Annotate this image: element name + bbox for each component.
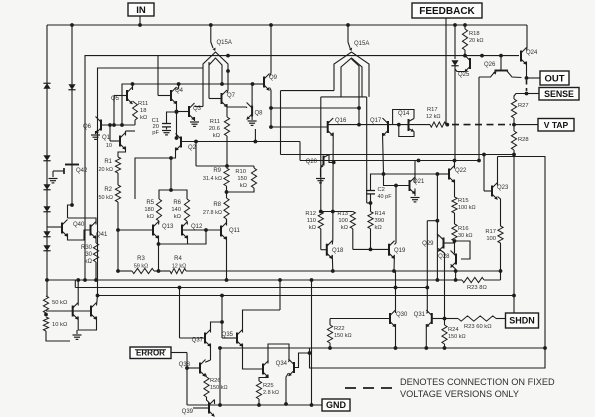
wire R10 bottom [227,188,255,192]
terminal box IN [128,3,154,16]
wire C2 bottom node [369,194,373,212]
wire bus y287 [75,280,427,289]
svg-text:Q30: Q30 [396,312,408,318]
wire R25 bottom [257,399,261,407]
ground for Q6 [91,131,100,139]
wire C2 top [371,172,440,190]
wire crown2 bottom rail [321,96,367,98]
diode D3 [43,184,50,190]
diode D4 [43,206,50,212]
svg-text:Q24: Q24 [526,50,538,56]
wire Q39 base [193,407,209,409]
svg-text:R9: R9 [213,168,221,174]
transistor Q19 [389,241,406,259]
svg-text:Q12: Q12 [191,224,203,230]
svg-text:40 pF: 40 pF [378,194,393,200]
wire IN lead [139,16,141,25]
wire y348 bus [218,346,547,350]
wire y160 bus [300,159,479,163]
svg-text:R28: R28 [518,137,529,143]
wire Q7 collector [227,90,228,93]
svg-text:DENOTES CONNECTION ON FIXED: DENOTES CONNECTION ON FIXED [400,377,555,387]
wire Q44 collector [97,296,98,306]
transistor Q18 [327,241,344,259]
node R3-R4 [154,269,170,273]
wire Q8 riser [251,84,253,106]
svg-text:Q31: Q31 [414,312,426,318]
terminal box GND [322,399,350,411]
wire Q40 base [47,226,62,228]
resistor R9 [203,168,229,186]
wire Q4 emitter chain [176,101,178,138]
svg-text:18: 18 [140,108,146,114]
svg-text:R11: R11 [210,119,220,125]
wire inner loop [98,68,204,296]
transistor Q3 [189,103,202,120]
wire Q29 collector tie [427,221,438,238]
transistor Q34 [276,359,294,376]
svg-text:Q13: Q13 [162,224,174,230]
resistor R2 [98,185,120,202]
svg-text:kΩ: kΩ [240,183,248,189]
transistor Q30 [390,310,408,327]
svg-text:R14: R14 [375,211,386,217]
transistor Q31 [414,310,432,327]
svg-text:R8: R8 [213,202,221,208]
wire Q30 emitter [394,324,398,350]
svg-text:180: 180 [144,207,154,213]
wire tap to pair [46,310,73,312]
wire Q4 base [158,56,171,96]
svg-text:pF: pF [152,130,159,136]
svg-text:Q8: Q8 [255,111,264,117]
resistor R14 [368,211,386,231]
transistor Q29 [422,235,443,252]
wire Q29 emitter drop [438,249,445,319]
svg-text:Q11: Q11 [229,228,241,234]
svg-text:2.8 kΩ: 2.8 kΩ [263,390,279,396]
wire Q5 collector [132,84,134,90]
wire Q13 collector [158,221,161,225]
wire Q38 emitter [205,374,206,378]
wire crown2 left column [320,97,322,212]
svg-text:SHDN: SHDN [509,316,535,326]
svg-text:R11: R11 [138,101,148,107]
wire R30 to bus [94,262,98,282]
wire Q39 collector [207,397,215,404]
wire Q37 emitter [205,344,210,363]
transistor Q44 [91,303,97,320]
wire q34 node riser [309,348,311,353]
wire R13R14 to Q19 base [353,229,389,252]
resistor R23a 8ohm [456,271,501,291]
resistor R28 [511,131,528,150]
svg-text:SENSE: SENSE [544,89,574,99]
transistor Q15A right [334,25,369,97]
wire bus y295 [96,294,516,298]
wire Q23 collector [497,157,499,186]
svg-text:R17: R17 [485,229,496,235]
resistor R1 [98,157,120,173]
node Q40 top [70,203,74,207]
svg-text:R10: R10 [235,169,246,175]
transistor Q4 [171,87,184,104]
transistor Q24 [521,48,538,65]
wire gnd bus y280 [45,278,457,282]
svg-text:Q42: Q42 [76,168,88,174]
ground for Q3 [190,117,199,126]
wire R24 ties [443,319,447,350]
wire Q29 riser drop [425,221,429,313]
svg-text:27.8 kΩ: 27.8 kΩ [203,210,222,216]
resistor R22 [327,325,351,343]
svg-text:20.6: 20.6 [209,126,220,132]
wire R1-R2 [117,173,119,185]
wire R15-R16 [454,213,456,224]
capacitor C1 [152,118,171,136]
wire Q34 collector [288,361,291,362]
svg-text:Q14: Q14 [398,111,410,117]
wire x311 riser [311,280,313,405]
wire pair bases [73,310,91,312]
svg-text:R5: R5 [146,200,154,206]
wire Q5 base [114,96,127,126]
terminal box SENSE [539,88,579,101]
wire R17v bottom [500,243,502,271]
svg-text:R30: R30 [81,245,93,251]
transistor Q6 [83,117,101,134]
transistor Q16 [328,118,347,136]
wire Q18 emitter [331,255,334,271]
wire y271 bus [186,269,502,273]
wire emitter bus [328,124,388,126]
transistor Q22 [449,166,467,183]
svg-text:20 kΩ: 20 kΩ [469,38,484,44]
transistor Q8 [247,103,264,120]
wire Q37 base [180,288,206,339]
resistor 50k [43,296,68,313]
wire Q12-Q11 bases [182,228,221,232]
svg-text:kΩ: kΩ [174,214,182,220]
resistor R17h 12k [426,107,446,127]
terminal box OUT [540,71,569,85]
terminal box ERROR [130,347,171,359]
wire Q34 emitter [284,373,288,406]
wire Q8 collector link [227,107,247,108]
node top rail taps [70,23,467,27]
svg-text:390: 390 [375,218,385,224]
wire Q40 collector feed [68,205,73,218]
transistor Q7 [222,90,236,107]
transistor Q40 [62,220,85,237]
wire sense to R27 [514,94,527,100]
resistor R17v 100 [485,226,503,243]
svg-text:59 kΩ: 59 kΩ [134,264,149,270]
legend text [400,377,555,399]
svg-text:Q7: Q7 [227,93,236,99]
diode D1 [43,83,50,89]
wire Q7 emitter [226,104,228,117]
wire R18 hang [464,25,466,29]
transistor Q9 [264,74,278,91]
svg-text:100 kΩ: 100 kΩ [458,205,476,211]
wire Q29 base tie [444,242,455,244]
wire Q42 source down [71,177,73,205]
transistor Q17 [370,118,388,136]
svg-text:GND: GND [326,400,347,410]
resistor R5 [144,199,161,221]
svg-text:R15: R15 [458,198,469,204]
wire y108 link [271,106,361,110]
wire Q33 collector [268,344,289,364]
svg-text:kΩ: kΩ [341,225,349,231]
wire Q21 emitter [414,189,416,197]
capacitor C2 [366,187,392,200]
terminal box FEEDBACK [412,3,482,18]
wire Q1 collector [126,131,136,136]
svg-text:R1: R1 [104,159,112,165]
svg-text:Q15A: Q15A [354,41,369,47]
wire dashed fixed link [452,124,511,126]
resistor R26 [204,377,228,397]
wire dashed out-sense [526,80,528,91]
wire Q34 base [294,351,311,367]
wire R2 down [117,202,119,271]
transistor Q20 [306,155,336,169]
svg-text:R27: R27 [518,103,529,109]
wire R28 tail to SHDN [512,150,516,313]
wire Q2 base run [181,129,300,161]
resistor R6 [171,199,189,221]
wire vref line y125 [101,123,135,127]
wire Q35 base [222,337,237,339]
transistor Q5 [111,87,133,104]
wire Q35 emitter [243,344,264,370]
wire Q2 emitter [135,148,176,200]
wire VIN top rail [47,24,527,26]
wire R11a bottom [134,120,136,125]
svg-text:100: 100 [338,218,348,224]
svg-text:110: 110 [307,218,316,224]
svg-text:31.4 kΩ: 31.4 kΩ [203,176,222,182]
wire Q5 emitter [133,101,136,103]
svg-text:Q16: Q16 [335,118,347,124]
svg-text:R23 60 kΩ: R23 60 kΩ [464,324,492,330]
transistor Q41 [91,222,109,239]
svg-text:Q17: Q17 [370,118,382,124]
svg-text:OUT: OUT [544,73,564,84]
wire Q31 emitter [424,324,428,350]
diode Q25 [451,60,470,78]
wire Q12 collector [186,221,189,225]
wire Q38 base [185,366,200,370]
svg-text:Q20: Q20 [306,159,318,165]
diode D7 [68,84,75,90]
svg-text:Q6: Q6 [83,124,92,130]
wire Q26 collector [464,50,467,56]
resistor R3 [132,256,154,274]
resistor R11a 18k [133,101,149,121]
wire Q22base drop [436,174,440,280]
svg-text:Q39: Q39 [182,409,194,415]
wire Q31 base node [432,317,447,321]
wire Q9 emitter [269,88,273,129]
node OUT node [525,76,529,80]
wire R8 bottom [226,219,228,226]
svg-text:R4: R4 [174,256,182,262]
svg-text:150: 150 [237,176,247,182]
node Q2 collector [175,136,179,140]
wire R28 top [513,125,515,131]
wire Q11 emitter [225,237,229,282]
wire Q16 collector load [331,133,335,241]
svg-text:FEEDBACK: FEEDBACK [419,6,475,17]
transistor Q26 [465,55,497,72]
svg-text:12 kΩ: 12 kΩ [426,114,441,120]
svg-text:Q23: Q23 [497,185,509,191]
transistor Q43 [73,303,79,320]
node VTAP node [512,123,516,127]
svg-text:100: 100 [486,236,496,242]
resistor R15 [452,197,476,213]
wire Q17 emitter drop [382,133,410,187]
wire Q7 base [209,98,222,100]
svg-text:Q19: Q19 [394,248,406,254]
wire left frame drop [280,91,282,155]
svg-text:Q35: Q35 [222,332,234,338]
transistor Q21 [410,177,426,194]
terminal box SHDN [506,313,539,328]
svg-text:50 kΩ: 50 kΩ [98,195,113,201]
wire right frame [310,157,546,369]
svg-text:50 kΩ: 50 kΩ [52,300,68,306]
wire Q41 emitter to R30 [95,236,97,244]
svg-text:R23 8Ω: R23 8Ω [467,285,487,291]
wire Q13 base [116,228,153,232]
svg-text:150 kΩ: 150 kΩ [448,334,466,340]
ground for Q42 gate [49,171,58,183]
svg-text:kΩ: kΩ [147,214,155,220]
wire FEEDBACK down [445,18,447,125]
wire Q23 base [484,155,492,192]
svg-text:Q18: Q18 [332,248,344,254]
ground for Q8 [248,117,257,126]
transistor Q1 [102,133,126,150]
resistor R10 [235,168,256,189]
wire Q28 emitter [451,265,456,281]
svg-text:R26: R26 [210,378,221,384]
wire Q22 collector [454,161,456,169]
svg-text:V TAP: V TAP [544,120,569,130]
svg-text:kΩ: kΩ [309,225,317,231]
wire x220 riser [219,348,221,405]
wire loads top rail [319,210,353,214]
svg-text:Q29: Q29 [422,241,434,247]
resistor R27 [511,99,528,118]
svg-text:20 kΩ: 20 kΩ [98,167,113,173]
svg-text:IN: IN [136,5,146,16]
wire Q19 collector riser [395,186,397,244]
svg-text:R18: R18 [469,31,480,37]
wire y90 link [281,90,335,92]
transistor Q2 [176,134,197,152]
wire Q18 collector [331,240,334,245]
wire Q28 loop [453,239,470,259]
wire Q31 collector [426,312,427,314]
wire Q43 collector [76,278,80,305]
wire C1 top [167,110,179,123]
wire Q25 rail [454,25,456,59]
node SENSE node [525,92,529,96]
resistor R11b 20.6k [209,117,230,139]
transistor Q11 [221,223,241,240]
wire Q26 emitter [455,69,465,72]
wire emitter degeneration net [157,230,206,271]
wire R3 left [116,269,132,273]
wire Q35 collector [243,310,281,333]
wire Q17 base side [388,123,430,127]
wire R12 to Q18 base [321,229,327,250]
resistor R16 [452,224,473,241]
wire y84 bus [122,84,253,125]
svg-text:VOLTAGE VERSIONS ONLY: VOLTAGE VERSIONS ONLY [400,389,519,399]
wire pair emitters [78,317,96,331]
wire bottom bus [187,403,322,407]
wire crown2 right column [367,97,371,203]
wire Q9 base [253,83,265,85]
svg-text:Q38: Q38 [179,362,191,368]
diode D6 [43,245,50,251]
resistor R12 [305,211,323,231]
svg-text:Q40: Q40 [73,222,85,228]
svg-text:Q25: Q25 [458,72,470,78]
wire Q25 down [454,66,456,161]
wire Q23 emitter [498,197,501,227]
resistor R23b 60k [445,316,506,330]
wire Q19 emitter [393,255,395,271]
transistor Q42 [53,160,88,177]
wire Q33 emitter [259,375,268,382]
resistor R24 [442,325,466,344]
svg-text:R2: R2 [104,187,112,193]
transistor Q14 (diode-connected) [393,110,414,137]
svg-text:Q34: Q34 [276,361,288,367]
svg-text:R22: R22 [334,326,345,332]
svg-text:R25: R25 [263,383,274,389]
svg-text:R12: R12 [305,211,316,217]
resistor R30 [81,243,99,265]
transistor Q23 [492,183,509,200]
wire Q9 collector [270,25,272,77]
wire legend dashes [345,387,393,389]
resistor R13 [337,211,355,231]
wire Q27 left leg [477,77,481,162]
svg-text:R3: R3 [137,256,145,262]
wire Q1 base [110,125,120,141]
node divider tap [44,313,48,317]
svg-text:30: 30 [85,252,92,258]
svg-text:Q1: Q1 [102,135,111,141]
wire Q11 collector [226,219,228,226]
ground for Q20 [316,179,325,183]
svg-text:Q2: Q2 [188,145,197,151]
wire R22 bottom [328,343,332,350]
wire Q4 collector [177,84,179,90]
wire Q40-Q41 links [68,218,97,240]
transistor Q15A left [195,25,232,107]
svg-text:150 kΩ: 150 kΩ [210,385,228,391]
transistor Q39 [182,400,215,417]
